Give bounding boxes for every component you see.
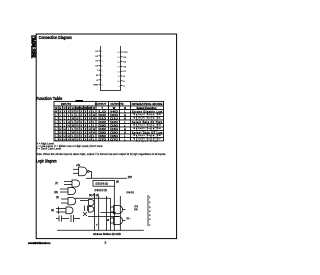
svg-text:Y: Y [101, 106, 103, 110]
svg-text:H: H [72, 116, 74, 120]
svg-text:(13) (12) (1): (13) (12) (1) [95, 190, 108, 192]
svg-text:2: 2 [149, 202, 151, 204]
svg-text:E: E [59, 106, 61, 110]
svg-text:X: X [80, 130, 82, 134]
svg-text:A: A [72, 106, 74, 110]
svg-text:Q: Q [124, 106, 126, 110]
svg-text:Select Function: Select Function [137, 106, 157, 110]
svg-text:D2: D2 [95, 56, 99, 58]
svg-text:X: X [80, 123, 82, 127]
svg-text:www.fairchildsemi.com: www.fairchildsemi.com [27, 241, 51, 245]
svg-text:X: X [85, 137, 87, 141]
svg-text:B: B [123, 81, 125, 83]
svg-text:B: B [68, 106, 70, 110]
svg-text:X: X [89, 109, 91, 113]
svg-text:(13): (13) [134, 209, 138, 211]
svg-text:OUTPUTS: OUTPUTS [110, 102, 123, 106]
svg-text:15: 15 [117, 57, 120, 59]
svg-text:Logic Diagram: Logic Diagram [36, 158, 57, 163]
svg-text:D70: D70 [98, 137, 106, 141]
svg-text:D6: D6 [123, 66, 127, 68]
svg-text:D3: D3 [88, 106, 92, 110]
svg-text:(6) (5) (4): (6) (5) (4) [89, 195, 99, 197]
svg-text:D00: D00 [98, 113, 106, 117]
svg-text:X: X [76, 123, 78, 127]
svg-text:H: H [64, 137, 66, 141]
svg-text:Note: When the strobe input is: Note: When the strobe input is taken hig… [36, 152, 166, 156]
svg-text:D70: D70 [110, 137, 118, 141]
svg-text:Output High: Output High [136, 140, 159, 143]
svg-text:Address Buffers (8) GND: Address Buffers (8) GND [93, 233, 121, 236]
svg-text:6: 6 [101, 75, 103, 77]
svg-text:X: X [89, 116, 91, 120]
svg-text:X: X [59, 109, 61, 113]
svg-text:6: 6 [149, 219, 151, 221]
svg-text:14: 14 [117, 62, 120, 64]
svg-text:C: C [123, 86, 125, 88]
svg-text:H: H [59, 127, 61, 131]
svg-text:D7: D7 [123, 71, 127, 73]
svg-text:D50: D50 [110, 130, 118, 134]
svg-text:D60: D60 [110, 134, 118, 138]
svg-text:H0: H0 [110, 109, 119, 113]
svg-text:X: X [89, 113, 91, 117]
svg-text:H: H [68, 123, 70, 127]
svg-text:4: 4 [101, 66, 103, 68]
svg-text:X: X [72, 109, 74, 113]
svg-text:Connection Diagram: Connection Diagram [39, 35, 72, 40]
svg-text:2: 2 [101, 56, 103, 58]
svg-text:H: H [68, 134, 70, 138]
svg-text:13: 13 [117, 67, 120, 69]
svg-text:(4): (4) [56, 197, 59, 199]
svg-text:X: X [76, 127, 78, 131]
svg-text:5: 5 [105, 241, 107, 245]
svg-text:A: A [123, 75, 125, 78]
svg-text:DM74LS151: DM74LS151 [30, 35, 36, 58]
svg-text:D60: D60 [98, 134, 106, 138]
svg-text:D00: D00 [110, 113, 118, 117]
svg-text:D10: D10 [98, 116, 106, 120]
svg-text:D0: D0 [95, 65, 99, 67]
svg-text:3: 3 [101, 61, 103, 63]
svg-text:Function Table: Function Table [36, 96, 63, 101]
svg-text:OPERATING MODE: OPERATING MODE [132, 102, 163, 106]
svg-text:D3: D3 [95, 51, 99, 53]
svg-text:VCC: VCC [123, 52, 128, 54]
svg-text:Y: Y [96, 225, 98, 227]
svg-text:X: X [85, 127, 87, 131]
svg-text:H: H [93, 113, 95, 117]
svg-text:H: H [68, 137, 70, 141]
svg-text:H: H [59, 137, 61, 141]
svg-text:D10: D10 [110, 116, 118, 120]
svg-text:X: X [85, 113, 87, 117]
svg-text:H: H [93, 130, 95, 134]
svg-text:H: H [89, 130, 91, 134]
svg-text:C: C [64, 106, 66, 110]
svg-text:D20: D20 [110, 120, 118, 124]
svg-text:16: 16 [117, 52, 120, 54]
svg-text:S: S [55, 106, 57, 110]
svg-text:X: X [80, 127, 82, 131]
svg-text:H: H [89, 137, 91, 141]
svg-text:7: 7 [101, 80, 103, 82]
svg-text:H: H [64, 134, 66, 138]
svg-text:D40: D40 [110, 127, 118, 131]
svg-text:X: X [85, 123, 87, 127]
svg-text:H: H [68, 120, 70, 124]
svg-text:Q: Q [93, 106, 95, 110]
svg-text:H: H [72, 137, 74, 141]
svg-text:X: X [64, 109, 66, 113]
svg-text:H: H [124, 127, 126, 131]
svg-text:X = Don't Care Level: X = Don't Care Level [36, 147, 61, 151]
svg-text:INPUTS: INPUTS [61, 102, 71, 106]
svg-text:(10) (11): (10) (11) [127, 192, 135, 194]
svg-text:10: 10 [117, 81, 120, 83]
svg-text:X: X [68, 109, 70, 113]
svg-text:7: 7 [149, 225, 151, 227]
svg-text:H: H [124, 116, 126, 120]
svg-text:(11): (11) [54, 192, 58, 194]
svg-text:8: 8 [101, 85, 103, 87]
svg-text:(5)Y: (5)Y [128, 177, 133, 179]
svg-text:H: H [89, 127, 91, 131]
svg-text:X: X [89, 120, 91, 124]
svg-text:D30: D30 [110, 123, 118, 127]
svg-text:(3): (3) [51, 210, 54, 212]
svg-text:H: H [93, 116, 95, 120]
svg-text:X: X [80, 137, 82, 141]
svg-text:X: X [80, 134, 82, 138]
svg-text:Select Data D2 High: Select Data D2 High [132, 121, 163, 124]
svg-text:H: H [93, 127, 95, 131]
svg-text:W: W [96, 75, 98, 77]
svg-text:H: H [72, 123, 74, 127]
svg-text:D40: D40 [98, 127, 106, 131]
svg-text:H: H [55, 109, 57, 113]
svg-text:D50: D50 [98, 130, 106, 134]
svg-text:X: X [80, 113, 82, 117]
svg-text:H: H [64, 130, 66, 134]
svg-text:H: H [124, 130, 126, 134]
svg-text:H: H [64, 127, 66, 131]
svg-text:5: 5 [149, 215, 151, 217]
svg-text:11: 11 [118, 76, 121, 78]
svg-text:X: X [85, 109, 87, 113]
svg-text:(9): (9) [116, 182, 119, 184]
svg-text:+5V: +5V [76, 165, 81, 167]
svg-text:X: X [85, 130, 87, 134]
svg-text:X: X [76, 134, 78, 138]
svg-text:D1: D1 [95, 61, 99, 63]
svg-text:4: 4 [149, 211, 151, 213]
svg-text:W: W [107, 220, 110, 222]
svg-text:GND: GND [93, 85, 98, 87]
svg-text:D4: D4 [123, 57, 127, 59]
svg-text:12: 12 [117, 71, 120, 73]
svg-text:X: X [76, 109, 78, 113]
svg-text:H: H [59, 130, 61, 134]
svg-text:X: X [85, 116, 87, 120]
svg-text:H: H [124, 113, 126, 117]
svg-text:X: X [85, 134, 87, 138]
svg-text:X: X [76, 130, 78, 134]
svg-text:X: X [76, 120, 78, 124]
svg-text:H: H [72, 130, 74, 134]
svg-text:(7): (7) [55, 183, 58, 185]
svg-text:(2)→: (2)→ [127, 218, 131, 220]
svg-text:5: 5 [101, 70, 103, 72]
svg-text:Select Data D5 Low: Select Data D5 Low [132, 131, 162, 134]
svg-text:G: G [96, 80, 98, 82]
svg-text:(15) (14) (2): (15) (14) (2) [96, 184, 109, 186]
svg-text:H: H [59, 134, 61, 138]
svg-text:X: X [76, 137, 78, 141]
svg-text:OUTPUT: OUTPUT [95, 102, 107, 106]
svg-text:1: 1 [149, 197, 151, 199]
svg-text:3: 3 [149, 207, 151, 209]
svg-text:(12): (12) [135, 206, 139, 208]
svg-text:X: X [80, 109, 82, 113]
svg-text:H: H [89, 134, 91, 138]
svg-text:Y: Y [97, 70, 99, 72]
svg-text:X: X [76, 116, 78, 120]
svg-text:1: 1 [101, 51, 103, 53]
svg-text:D5: D5 [123, 62, 127, 64]
svg-text:Strobe Disable Low: Strobe Disable Low [132, 110, 162, 113]
svg-text:X: X [80, 120, 82, 124]
svg-text:D30: D30 [98, 123, 106, 127]
svg-text:D20: D20 [98, 120, 106, 124]
